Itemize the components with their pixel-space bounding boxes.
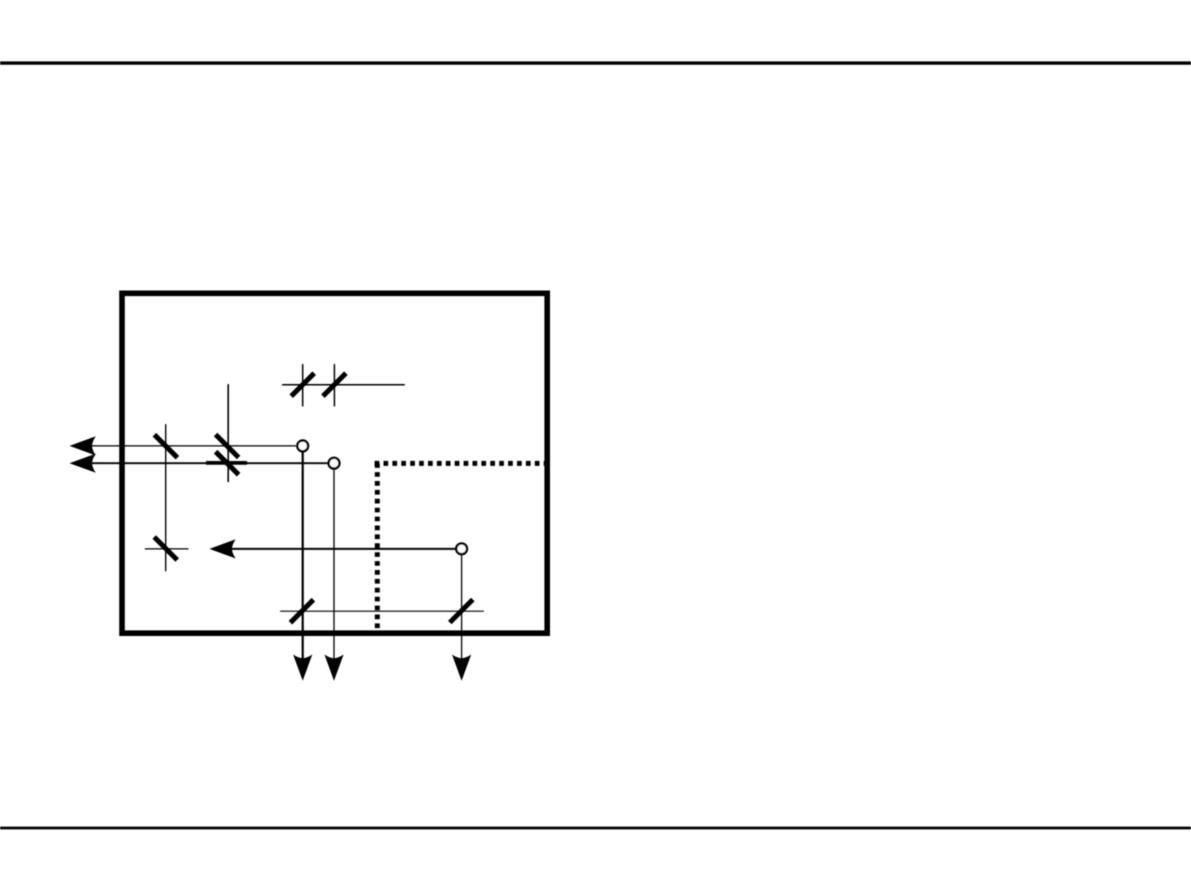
mirror M3: [154, 435, 177, 458]
arrow A6 (down, detector C): [452, 655, 471, 681]
footer rule: [0, 827, 1191, 830]
coupler node C3: [456, 543, 467, 554]
wire: upper output line: [72, 445, 296, 447]
arrow A3 (left, middle): [209, 539, 235, 558]
beamsplitter BS upper plate: [216, 435, 239, 458]
wire: detector line A: [302, 452, 304, 660]
coupler node C1: [297, 441, 308, 452]
arrow A5 (down, detector B): [324, 655, 343, 681]
enclosure box: [122, 293, 547, 633]
mirror M1: [291, 373, 314, 396]
wire: beamsplitter vertical line: [227, 384, 229, 482]
mirror M4: [154, 537, 177, 560]
wire: lower output line: [72, 462, 327, 464]
dashed boundary horizontal: [375, 461, 546, 466]
mirror M2: [323, 373, 346, 396]
beamsplitter BS lower plate: [216, 452, 239, 475]
wire: vertical through mirror M1: [302, 364, 304, 406]
wire: vertical through mirror M2: [333, 364, 335, 406]
header rule: [0, 61, 1191, 64]
wire: left vertical line: [165, 424, 167, 571]
arrow A4 (down, detector A): [293, 655, 312, 681]
wire: short line at mirror M4: [145, 548, 189, 550]
coupler node C2: [329, 458, 340, 469]
wire: middle horizontal line: [214, 548, 455, 550]
beamsplitter BS bar: [206, 461, 247, 465]
arrow A2 (left, lower output): [70, 454, 96, 473]
dashed boundary vertical: [375, 463, 380, 633]
wire: detector line B: [333, 470, 335, 660]
wire: detector line C: [461, 555, 463, 660]
wire: top horizontal line: [282, 384, 405, 386]
wire: bottom horizontal line: [280, 610, 484, 612]
mirror M6: [450, 600, 473, 623]
mirror M5: [290, 600, 313, 623]
arrow A1 (left, upper output): [70, 436, 96, 455]
